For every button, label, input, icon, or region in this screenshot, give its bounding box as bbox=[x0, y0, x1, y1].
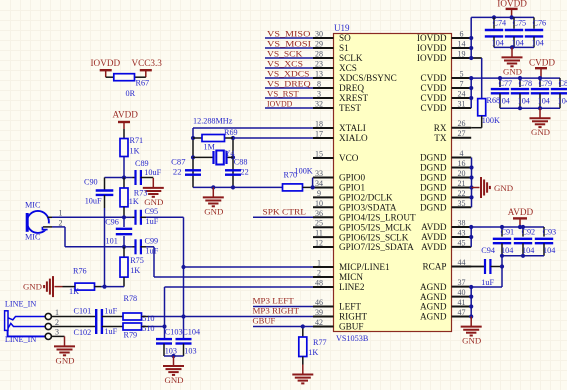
svg-text:C101: C101 bbox=[74, 306, 92, 315]
svg-text:MP3 LEFT: MP3 LEFT bbox=[253, 296, 295, 306]
capacitor C104 103 bbox=[176, 317, 201, 357]
junction bbox=[538, 76, 542, 80]
svg-text:SPK CTRL: SPK CTRL bbox=[263, 207, 307, 217]
junction bbox=[231, 155, 235, 159]
node C junction bbox=[122, 245, 126, 249]
junction RIGHT x183 bbox=[181, 314, 185, 318]
ground GND under crystal bbox=[203, 187, 224, 216]
power IOVDD (R67) bbox=[91, 58, 121, 77]
svg-text:MICP/LINE1: MICP/LINE1 bbox=[339, 262, 390, 272]
wire bias rail bbox=[101, 286, 124, 288]
svg-text:C87: C87 bbox=[171, 157, 186, 167]
svg-text:510: 510 bbox=[142, 314, 154, 323]
resistor R73 1K bbox=[120, 178, 147, 207]
svg-text:GPIO5/I2S_MCLK: GPIO5/I2S_MCLK bbox=[339, 222, 412, 232]
svg-text:37: 37 bbox=[458, 278, 466, 287]
capacitor C74 104 bbox=[485, 17, 506, 47]
svg-text:SO: SO bbox=[339, 33, 351, 43]
junction bbox=[469, 314, 473, 318]
svg-text:R79: R79 bbox=[124, 331, 138, 340]
svg-text:25: 25 bbox=[315, 219, 323, 228]
wire AGND vertical bbox=[470, 287, 472, 317]
op-amp U1: IC U19 VS1053B body bbox=[334, 23, 452, 343]
junction bbox=[311, 185, 315, 189]
capacitor C76 104 bbox=[525, 17, 546, 47]
junction bbox=[500, 254, 504, 258]
svg-text:C94: C94 bbox=[481, 246, 495, 255]
U19 pin 12 GPIO7/I2S_SDATA bbox=[313, 239, 414, 253]
wire C99 to MICN pin2 bbox=[146, 247, 313, 277]
junction bbox=[469, 165, 473, 169]
svg-text:VS_MISO: VS_MISO bbox=[267, 28, 310, 38]
junction bbox=[518, 106, 522, 110]
U19 pin 37 AGND bbox=[420, 278, 471, 292]
U19 pin 48 LINE2 bbox=[313, 279, 365, 293]
svg-text:MP3 RIGHT: MP3 RIGHT bbox=[253, 306, 300, 316]
svg-text:GND: GND bbox=[494, 183, 513, 193]
wire C103/C104 bottoms bbox=[164, 355, 184, 357]
U19 pin 32 TEST bbox=[313, 100, 361, 114]
svg-text:VS_XCS: VS_XCS bbox=[267, 58, 303, 68]
node MP3_LEFT: wire and net label to pin 46 bbox=[253, 296, 314, 307]
node VS_DREQ: wire and net label to U19 bbox=[265, 78, 313, 88]
svg-text:VS_RST: VS_RST bbox=[267, 88, 299, 98]
svg-text:104: 104 bbox=[538, 96, 550, 105]
capacitor C78 104 bbox=[511, 78, 532, 108]
svg-text:R71: R71 bbox=[130, 136, 144, 145]
svg-text:22: 22 bbox=[173, 167, 182, 177]
capacitor C88 22 bbox=[225, 158, 249, 177]
U19 pin 16 DGND bbox=[420, 159, 471, 173]
connector LINE_IN jack bbox=[5, 300, 59, 345]
svg-text:GND: GND bbox=[531, 127, 550, 137]
U19 pin 5 CVDD bbox=[420, 70, 471, 84]
wire caps bottom to AGND bbox=[471, 256, 502, 287]
svg-text:IOVDD: IOVDD bbox=[417, 33, 447, 43]
wire C90 down to bias rail bbox=[104, 195, 106, 287]
svg-text:CVDD: CVDD bbox=[420, 103, 446, 113]
svg-text:C89: C89 bbox=[135, 159, 149, 168]
svg-text:7: 7 bbox=[460, 80, 464, 89]
ground GND under CVDD caps bbox=[530, 108, 551, 137]
resistor R68 100K bbox=[471, 96, 500, 128]
svg-text:35: 35 bbox=[458, 199, 466, 208]
svg-text:104: 104 bbox=[518, 96, 530, 105]
U19 pin 9 GPIO2/DCLK bbox=[313, 189, 393, 203]
svg-text:RCAP: RCAP bbox=[422, 262, 446, 272]
svg-text:510: 510 bbox=[142, 324, 154, 333]
svg-text:LINE2: LINE2 bbox=[339, 282, 365, 292]
junction bbox=[492, 15, 496, 19]
svg-text:C95: C95 bbox=[145, 207, 159, 216]
svg-text:1uF: 1uF bbox=[104, 327, 117, 336]
junction MICP bbox=[181, 265, 185, 269]
wire MIC pin1 to node B bbox=[48, 216, 125, 218]
svg-text:10uF: 10uF bbox=[144, 168, 161, 177]
svg-text:C80: C80 bbox=[559, 79, 567, 88]
U19 pin 13 XDCS/BSYNC bbox=[313, 70, 397, 84]
svg-text:VS_MOSI: VS_MOSI bbox=[267, 38, 311, 48]
wire R71 to node A bbox=[123, 157, 125, 178]
svg-text:18: 18 bbox=[315, 120, 323, 129]
svg-text:1uF: 1uF bbox=[146, 246, 159, 255]
wire C101 to R78 bbox=[102, 316, 123, 318]
junction bbox=[191, 155, 195, 159]
U19 pin 43 AVDD bbox=[421, 229, 471, 243]
junction bbox=[521, 225, 525, 229]
svg-text:0R: 0R bbox=[126, 89, 136, 98]
svg-text:XDCS/BSYNC: XDCS/BSYNC bbox=[339, 73, 397, 83]
ground GND left of R76 bbox=[23, 276, 63, 297]
U19 pin 30 SO bbox=[313, 30, 351, 44]
svg-text:AVDD: AVDD bbox=[508, 207, 534, 217]
svg-text:29: 29 bbox=[315, 40, 323, 49]
svg-text:AVDD: AVDD bbox=[421, 242, 447, 252]
svg-text:GPIO0: GPIO0 bbox=[339, 173, 365, 183]
svg-text:AGND: AGND bbox=[420, 282, 447, 292]
node VS_MISO: wire and net label to U19 bbox=[265, 28, 313, 38]
junction bbox=[211, 185, 215, 189]
svg-text:GND: GND bbox=[462, 336, 481, 346]
svg-text:TEST: TEST bbox=[339, 103, 361, 113]
svg-text:VCC3.3: VCC3.3 bbox=[132, 58, 163, 68]
junction LINE2/R79 bbox=[162, 324, 166, 328]
svg-text:Y4: Y4 bbox=[225, 149, 235, 158]
wire CVDD rail bbox=[471, 78, 560, 108]
svg-text:R69: R69 bbox=[224, 128, 238, 137]
svg-text:CVDD: CVDD bbox=[420, 83, 446, 93]
junction GBUF/R77 bbox=[301, 324, 305, 328]
junction bbox=[538, 106, 542, 110]
svg-text:1: 1 bbox=[317, 259, 321, 268]
U19 pin 8 DREQ bbox=[313, 80, 364, 94]
svg-text:10uF: 10uF bbox=[85, 197, 102, 206]
resistor R76 1K bbox=[63, 267, 102, 297]
svg-text:LINE_IN: LINE_IN bbox=[5, 300, 36, 309]
svg-text:16: 16 bbox=[458, 159, 466, 168]
resistor R69 1M bbox=[193, 128, 238, 152]
svg-text:VS_XDCS: VS_XDCS bbox=[267, 68, 310, 78]
wire crystal right vertical bbox=[232, 138, 234, 187]
junction bbox=[171, 354, 175, 358]
junction bbox=[469, 285, 473, 289]
wire CVDD caps bottom rail bbox=[500, 107, 560, 109]
junction C94/AVDD-caps bbox=[500, 264, 504, 268]
microphone MIC bbox=[25, 201, 63, 242]
wire jack pin3 to ground bbox=[51, 335, 64, 337]
svg-text:RX: RX bbox=[434, 123, 447, 133]
svg-text:1uF: 1uF bbox=[146, 217, 159, 226]
wire R73 to node B bbox=[123, 207, 125, 218]
svg-text:DGND: DGND bbox=[420, 193, 447, 203]
U19 pin 4 DGND bbox=[420, 149, 471, 163]
svg-text:C103: C103 bbox=[165, 327, 183, 336]
svg-text:SCLK: SCLK bbox=[339, 53, 363, 63]
capacitor C79 104 bbox=[531, 78, 552, 108]
wire C102 to R79 bbox=[102, 326, 123, 328]
resistor R77 1K bbox=[299, 327, 327, 357]
svg-text:IOVDD: IOVDD bbox=[417, 53, 447, 63]
svg-text:C78: C78 bbox=[519, 79, 533, 88]
power AVDD (caps) bbox=[508, 207, 534, 227]
U19 pin 22 DGND bbox=[420, 189, 471, 203]
U19 pin 33 GPIO0 bbox=[313, 169, 365, 183]
svg-text:1K: 1K bbox=[69, 287, 79, 296]
svg-text:2: 2 bbox=[317, 269, 321, 278]
wire R75 to bias rail bbox=[123, 277, 125, 287]
junction bbox=[500, 225, 504, 229]
svg-text:C102: C102 bbox=[74, 328, 92, 337]
node B junction bbox=[122, 215, 126, 219]
U19 pin 46 LEFT bbox=[313, 298, 361, 312]
svg-text:AGND: AGND bbox=[420, 292, 447, 302]
power IOVDD (caps) bbox=[497, 0, 527, 17]
U19 pin 2 MICN bbox=[313, 269, 363, 283]
wire IOVDD rail top bbox=[471, 17, 534, 58]
junction bbox=[518, 76, 522, 80]
crystal Y4 12.288MHz bbox=[193, 116, 235, 164]
wire node A to C90 bbox=[105, 178, 125, 191]
svg-text:MIC: MIC bbox=[25, 232, 41, 241]
junction bbox=[469, 304, 473, 308]
wire crystal left vertical bbox=[192, 128, 194, 187]
svg-text:TX: TX bbox=[434, 133, 447, 143]
svg-text:GPIO4/I2S_LROUT: GPIO4/I2S_LROUT bbox=[339, 213, 416, 223]
resistor R67 0R bbox=[106, 74, 149, 98]
svg-text:14: 14 bbox=[458, 40, 466, 49]
svg-text:AGND: AGND bbox=[420, 302, 447, 312]
node VS_SCK: wire and net label to U19 bbox=[265, 48, 313, 58]
junction bbox=[469, 175, 473, 179]
wire XTALI pin18 bbox=[193, 127, 313, 129]
svg-text:C96: C96 bbox=[105, 218, 119, 227]
svg-text:12: 12 bbox=[315, 239, 323, 248]
U19 pin 35 DGND bbox=[420, 199, 471, 213]
wire AVDD rail bbox=[471, 227, 544, 247]
svg-text:1K: 1K bbox=[129, 197, 139, 206]
svg-text:GND: GND bbox=[503, 66, 522, 76]
svg-text:46: 46 bbox=[315, 298, 323, 307]
svg-text:17: 17 bbox=[315, 130, 323, 139]
wire pin33 jog down bbox=[312, 178, 314, 188]
U19 pin 42 GBUF bbox=[313, 318, 364, 332]
svg-text:GBUF: GBUF bbox=[339, 322, 364, 332]
U19 pin 34 GPIO1 bbox=[313, 179, 365, 193]
svg-text:XIALO: XIALO bbox=[339, 133, 368, 143]
node GBUF: wire and net label to pin 42 bbox=[253, 316, 314, 327]
svg-text:CVDD: CVDD bbox=[529, 58, 555, 68]
resistor R79 510 bbox=[123, 323, 154, 340]
svg-text:43: 43 bbox=[458, 229, 466, 238]
wire R79 to LINE2 vertical bbox=[142, 326, 165, 328]
svg-text:DGND: DGND bbox=[420, 163, 447, 173]
svg-text:22: 22 bbox=[241, 168, 249, 177]
svg-text:3: 3 bbox=[55, 328, 59, 337]
svg-text:27: 27 bbox=[458, 129, 466, 138]
junction bbox=[469, 295, 473, 299]
svg-text:41: 41 bbox=[458, 298, 466, 307]
svg-text:104: 104 bbox=[492, 39, 504, 48]
svg-text:R76: R76 bbox=[73, 267, 87, 276]
svg-text:S1: S1 bbox=[339, 43, 349, 53]
junction bbox=[231, 136, 235, 140]
svg-text:104: 104 bbox=[522, 246, 534, 255]
svg-text:R75: R75 bbox=[130, 256, 144, 265]
junction bbox=[510, 15, 514, 19]
capacitor C77 104 bbox=[491, 78, 512, 108]
junction bbox=[469, 225, 473, 229]
wire IOVDD caps bottom rail bbox=[494, 46, 534, 48]
svg-text:1M: 1M bbox=[204, 143, 216, 152]
junction bbox=[510, 45, 514, 49]
svg-text:VS1053B: VS1053B bbox=[336, 334, 369, 343]
svg-text:LEFT: LEFT bbox=[339, 302, 361, 312]
svg-text:4: 4 bbox=[460, 149, 464, 158]
node IOVDD: wire and net label to U19 bbox=[265, 98, 313, 108]
svg-text:12.288MHz: 12.288MHz bbox=[193, 116, 233, 125]
node VS_MOSI: wire and net label to U19 bbox=[265, 38, 313, 48]
svg-text:DGND: DGND bbox=[420, 153, 447, 163]
power VCC3.3 bbox=[132, 58, 163, 77]
svg-text:30: 30 bbox=[315, 30, 323, 39]
svg-text:31: 31 bbox=[458, 100, 466, 109]
svg-text:IOVDD: IOVDD bbox=[497, 0, 527, 9]
U19 pin 40 AGND bbox=[420, 288, 471, 302]
svg-text:C90: C90 bbox=[84, 178, 98, 187]
svg-text:AVDD: AVDD bbox=[113, 109, 139, 119]
wire jack pin1 to C101 bbox=[51, 316, 96, 318]
svg-text:103: 103 bbox=[184, 347, 196, 356]
svg-text:2: 2 bbox=[55, 318, 59, 327]
U19 pin 15 VCO bbox=[313, 150, 359, 164]
junction bbox=[469, 185, 473, 189]
power CVDD bbox=[529, 58, 555, 78]
wire R78 to RIGHT net bbox=[142, 316, 314, 318]
svg-text:32: 32 bbox=[315, 100, 323, 109]
capacitor C89 10uF bbox=[124, 159, 162, 185]
svg-text:GPIO2/DCLK: GPIO2/DCLK bbox=[339, 193, 393, 203]
svg-text:33: 33 bbox=[315, 169, 323, 178]
svg-text:R67: R67 bbox=[136, 79, 150, 88]
svg-text:8: 8 bbox=[317, 80, 321, 89]
svg-text:C79: C79 bbox=[539, 79, 553, 88]
wire pin19 to R68 bbox=[471, 58, 482, 99]
svg-text:20: 20 bbox=[458, 169, 466, 178]
svg-text:GPIO6/I2S_SCLK: GPIO6/I2S_SCLK bbox=[339, 232, 409, 242]
svg-text:45: 45 bbox=[458, 238, 466, 247]
wire R77 to ground bbox=[302, 357, 304, 365]
svg-text:101: 101 bbox=[106, 237, 118, 246]
U19 pin 45 AVDD bbox=[421, 238, 471, 252]
node SPK_CTRL: wire and net label to pin 36 bbox=[253, 207, 313, 218]
svg-text:XTALI: XTALI bbox=[339, 123, 366, 133]
svg-text:MIC: MIC bbox=[25, 201, 41, 210]
capacitor C80 104 bbox=[551, 78, 567, 108]
svg-text:39: 39 bbox=[315, 308, 323, 317]
svg-text:9: 9 bbox=[317, 189, 321, 198]
svg-text:C76: C76 bbox=[533, 18, 547, 27]
junction bbox=[469, 56, 473, 60]
ground under R77 bbox=[292, 365, 313, 384]
wire MICP down to RIGHT net bbox=[183, 267, 185, 317]
svg-text:48: 48 bbox=[315, 279, 323, 288]
svg-text:15: 15 bbox=[315, 150, 323, 159]
svg-text:CVDD: CVDD bbox=[420, 73, 446, 83]
svg-text:VS_DREQ: VS_DREQ bbox=[267, 78, 311, 88]
U19 pin 11 GPIO6/I2S_SCLK bbox=[313, 229, 409, 243]
U19 pin 31 CVDD bbox=[420, 100, 471, 114]
svg-text:23: 23 bbox=[315, 60, 323, 69]
svg-text:1: 1 bbox=[59, 208, 63, 217]
U19 pin 19 IOVDD bbox=[417, 50, 471, 64]
svg-text:C74: C74 bbox=[493, 18, 507, 27]
junction bbox=[469, 46, 473, 50]
svg-text:1: 1 bbox=[55, 308, 59, 317]
ground GND right of C89 bbox=[143, 178, 164, 207]
U19 pin 39 RIGHT bbox=[313, 308, 367, 322]
U19 pin 29 S1 bbox=[313, 40, 349, 54]
svg-text:38: 38 bbox=[458, 219, 466, 228]
svg-text:GPIO1: GPIO1 bbox=[339, 183, 365, 193]
svg-text:24: 24 bbox=[458, 90, 466, 99]
capacitor C102 1uF bbox=[74, 327, 118, 337]
svg-text:13: 13 bbox=[315, 70, 323, 79]
svg-text:26: 26 bbox=[458, 119, 466, 128]
resistor R75 1K bbox=[120, 247, 144, 277]
capacitor C94 1uF bbox=[452, 246, 503, 287]
svg-text:C77: C77 bbox=[499, 79, 513, 88]
capacitor C101 1uF bbox=[74, 306, 118, 334]
U19 pin 41 AGND bbox=[420, 298, 471, 312]
U19 pin 26 RX bbox=[434, 119, 471, 133]
svg-text:C75: C75 bbox=[513, 18, 527, 27]
svg-text:36: 36 bbox=[315, 209, 323, 218]
svg-text:104: 104 bbox=[558, 96, 567, 105]
svg-text:2: 2 bbox=[59, 218, 63, 227]
resistor R70 100K bbox=[283, 167, 313, 191]
junction bbox=[521, 254, 525, 258]
ground GND under IOVDD caps bbox=[502, 47, 523, 76]
svg-text:R68: R68 bbox=[487, 96, 501, 105]
svg-text:GND: GND bbox=[55, 355, 74, 365]
svg-text:1K: 1K bbox=[130, 147, 140, 156]
svg-text:U19: U19 bbox=[334, 23, 350, 33]
svg-text:MICN: MICN bbox=[339, 272, 363, 282]
U19 pin 36 GPIO4/I2S_LROUT bbox=[313, 209, 416, 223]
svg-text:47: 47 bbox=[458, 308, 466, 317]
svg-text:11: 11 bbox=[315, 229, 323, 238]
svg-text:AVDD: AVDD bbox=[421, 222, 447, 232]
node VS_XDCS: wire and net label to U19 bbox=[265, 68, 313, 78]
svg-text:34: 34 bbox=[315, 179, 323, 188]
svg-text:10: 10 bbox=[315, 199, 323, 208]
svg-text:DGND: DGND bbox=[420, 173, 447, 183]
svg-text:C104: C104 bbox=[182, 327, 200, 336]
resistor R78 510 bbox=[123, 294, 154, 323]
node VS_XCS: wire and net label to U19 bbox=[265, 58, 313, 68]
capacitor C91 104 bbox=[493, 227, 514, 256]
svg-text:5: 5 bbox=[460, 70, 464, 79]
U19 pin 14 IOVDD bbox=[417, 40, 471, 54]
junction bbox=[498, 76, 502, 80]
svg-text:XREST: XREST bbox=[339, 93, 368, 103]
wire DGND vertical bbox=[471, 158, 473, 208]
capacitor C96 101 bbox=[105, 217, 132, 247]
svg-text:VS_SCK: VS_SCK bbox=[267, 48, 303, 58]
wire crystal bottom rail bbox=[193, 186, 283, 188]
U19 pin 47 AGND bbox=[420, 308, 471, 322]
svg-text:42: 42 bbox=[315, 318, 323, 327]
